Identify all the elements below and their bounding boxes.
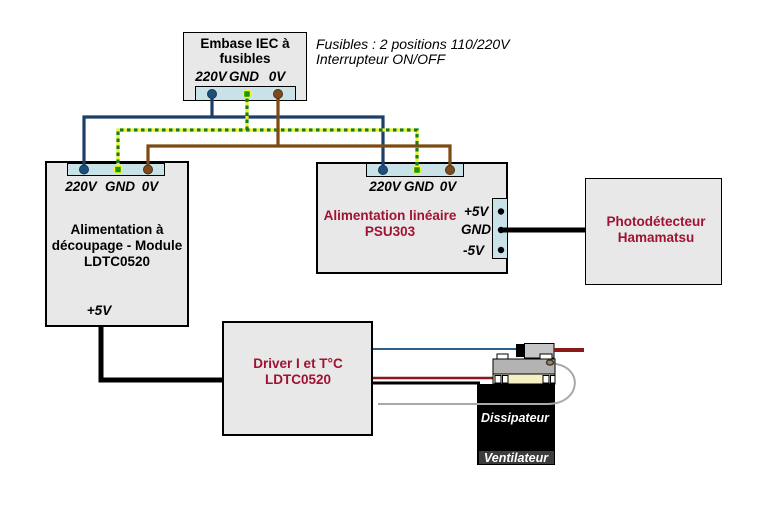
wire grey loop: driver to laser head: [378, 364, 575, 405]
box D1 Photodetecteur Hamamatsu: [585, 178, 722, 285]
label GND IEC: [229, 69, 259, 84]
wire blue 220V: IEC to both supplies: [84, 94, 383, 170]
laser mount white tabs: [497, 354, 508, 359]
box U1 Embase IEC a fusibles: [183, 32, 307, 101]
label 0V linear: [440, 179, 457, 194]
label Dissipateur: [481, 411, 549, 425]
wire ground GND yellow/green: IEC to both supplies: [118, 94, 417, 170]
terminal dot GND linear out: [498, 227, 504, 233]
dissipateur heatsink black block: [477, 384, 555, 465]
wire dark red right of laser head: [554, 348, 584, 352]
label Ventilateur: [484, 451, 548, 465]
terminal dot brown left supply: [144, 165, 153, 174]
wire blue thin: driver to laser connector: [373, 348, 517, 350]
box U2 Driver I et T C: [222, 321, 373, 436]
terminal dot GND linear supply: [413, 166, 422, 175]
laser head block: [525, 344, 555, 359]
terminal strip linear supply: [366, 163, 464, 177]
label GND linear: [404, 179, 434, 194]
box PS2 Alimentation lineaire PSU303: [316, 162, 508, 274]
terminal dot blue left supply: [80, 165, 89, 174]
peltier cream band: [493, 374, 555, 384]
output strip linear supply: [492, 198, 508, 259]
label 220V linear: [369, 179, 401, 194]
laser connector black: [516, 344, 525, 357]
title photodetecteur: [606, 214, 705, 246]
note fusibles text: [316, 37, 510, 67]
terminal dot brown linear supply: [446, 166, 455, 175]
label -5V out: [463, 243, 484, 258]
wire +5V thick black: switching supply to driver: [101, 327, 222, 380]
label GND out: [461, 222, 491, 237]
ventilateur band: [479, 451, 554, 464]
terminal strip IEC: [195, 86, 296, 101]
title left supply: [52, 222, 183, 270]
title IEC box: [200, 36, 289, 66]
wire dark red: driver to laser mount: [373, 377, 497, 380]
terminal dot brown IEC: [274, 90, 283, 99]
label GND left: [105, 179, 135, 194]
terminal dot blue IEC: [208, 90, 217, 99]
label 220V left: [65, 179, 97, 194]
wire brown 0V: IEC to both supplies: [148, 94, 450, 170]
oval grommet on mount: [547, 360, 554, 365]
title driver: [253, 356, 342, 388]
label 0V left: [142, 179, 159, 194]
peltier white cells: [495, 376, 501, 384]
label +5V out: [464, 204, 488, 219]
laser mount main grey block: [493, 359, 555, 374]
terminal dot blue linear supply: [379, 166, 388, 175]
wire black: driver to heatsink: [373, 382, 480, 385]
wire GND thick black: linear supply to photodetector: [500, 228, 585, 233]
terminal dot +5V linear: [498, 208, 504, 214]
box PS1 Alimentation a decoupage: [45, 161, 189, 327]
terminal dot -5V linear: [498, 247, 504, 253]
terminal strip left supply: [67, 163, 165, 176]
label 0V IEC: [269, 69, 286, 84]
terminal dot GND IEC: [243, 90, 252, 99]
label +5V left supply: [87, 303, 111, 318]
terminal dot GND left supply: [114, 165, 123, 174]
label 220V IEC: [195, 69, 227, 84]
title linear supply: [324, 208, 457, 240]
